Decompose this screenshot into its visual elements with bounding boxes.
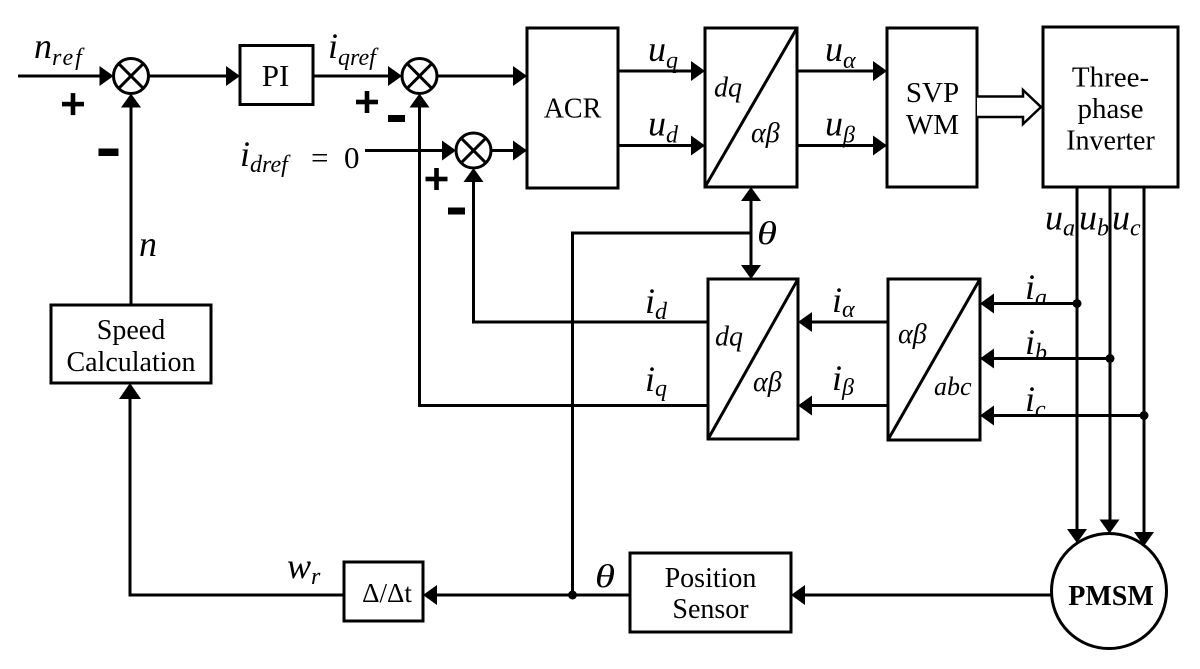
wire i_b to abc block [980, 349, 1110, 369]
wire i_c to abc block [980, 406, 1144, 426]
label minus S3 [448, 208, 465, 215]
wire n speed calculation to S1 [121, 94, 141, 306]
svg-text:αβ: αβ [753, 367, 782, 398]
label u_c [1112, 198, 1141, 242]
block dq/alphabeta transform lower [708, 279, 798, 439]
wire i_alpha abc to dq2 [798, 312, 888, 332]
wire PI to S2 [313, 66, 402, 86]
wire PMSM to position sensor [791, 585, 1052, 605]
wire phase a inverter to PMSM [1067, 187, 1087, 543]
svg-text:WM: WM [906, 109, 959, 141]
label u_b [1079, 198, 1109, 242]
block delta/delta-t [344, 562, 423, 621]
label u_a [1045, 198, 1075, 242]
svg-text:θ: θ [595, 559, 615, 595]
svg-text:dq: dq [714, 73, 742, 104]
label i_qref [328, 26, 379, 71]
label plus S1 [62, 93, 84, 115]
node tap i_c [1140, 411, 1149, 420]
label u_q [648, 29, 678, 74]
svg-text:Three-: Three- [1072, 62, 1149, 94]
svg-text:dq: dq [715, 322, 743, 353]
label theta lower [595, 559, 615, 595]
label minus S1 [99, 149, 119, 157]
label i_q [645, 359, 667, 402]
svg-text:αβ: αβ [898, 319, 927, 350]
svg-text:abc: abc [934, 372, 972, 401]
label i_dref = 0 [240, 134, 360, 178]
wire S3 to ACR [491, 141, 527, 161]
wire S2 to ACR [437, 66, 527, 86]
node tap i_a [1073, 299, 1082, 308]
label theta upper [757, 216, 777, 252]
svg-text:Sensor: Sensor [672, 594, 749, 625]
svg-text:Calculation: Calculation [66, 347, 195, 378]
label i_alpha [832, 280, 855, 323]
svg-text:PMSM: PMSM [1068, 581, 1154, 612]
summing junction S1 [114, 59, 149, 94]
label i_c [1025, 379, 1046, 423]
wire i_a to abc block [980, 294, 1077, 314]
label i_a [1025, 267, 1047, 311]
svg-text:Speed: Speed [97, 315, 165, 346]
block three-phase inverter [1043, 27, 1178, 187]
svg-text:Inverter: Inverter [1066, 126, 1155, 157]
wire S1 to PI [149, 66, 241, 86]
block dq/alphabeta transform upper [705, 28, 797, 187]
block ACR [527, 28, 618, 188]
label i_beta [832, 358, 854, 401]
svg-text:PI: PI [262, 58, 290, 93]
wire u_q ACR to dq1 [618, 61, 705, 81]
label u_beta [825, 104, 855, 149]
label n_ref [34, 26, 85, 71]
svg-text:ACR: ACR [544, 94, 602, 125]
wire theta branch to position sensor line [573, 233, 752, 595]
wire i_dref to S3 [365, 141, 456, 161]
svg-text:Position: Position [665, 563, 757, 594]
label w_r [287, 546, 321, 590]
svg-text:phase: phase [1077, 93, 1143, 125]
label i_b [1025, 322, 1047, 366]
svg-text:n: n [139, 224, 157, 264]
summing junction S3 [456, 133, 491, 168]
node tap i_b [1106, 354, 1115, 363]
block position sensor [630, 553, 791, 632]
block SVPWM [887, 28, 977, 187]
label plus S2 [356, 91, 378, 113]
wire u_d ACR to dq1 [618, 136, 705, 156]
node theta junction [568, 591, 577, 600]
block alphabeta/abc transform [888, 279, 980, 440]
label minus S2 [388, 115, 405, 122]
summing junction S2 [402, 59, 437, 94]
wire i_d dq2 to S3 [464, 168, 709, 322]
wire i_beta abc to dq2 [798, 396, 888, 416]
label n [139, 224, 157, 264]
label u_alpha [825, 29, 856, 74]
svg-text:θ: θ [757, 216, 777, 252]
label u_d [648, 104, 679, 149]
wire delta block to speed calculation [119, 383, 344, 595]
circle PMSM motor [1052, 534, 1167, 649]
block arrow SVPWM to inverter [977, 90, 1041, 124]
label i_d [645, 281, 668, 325]
svg-text:SVP: SVP [906, 77, 959, 109]
block speed calculation [51, 305, 211, 383]
wire theta link between transforms [741, 187, 761, 279]
svg-text:Δ/Δt: Δ/Δt [362, 578, 412, 608]
svg-text:αβ: αβ [751, 118, 780, 149]
wire phase b inverter to PMSM [1100, 187, 1120, 534]
wire u_alpha dq1 to SVPWM [797, 61, 887, 81]
wire n_ref input [18, 66, 114, 86]
wire u_beta dq1 to SVPWM [797, 136, 887, 156]
wire i_q dq2 to S2 [410, 94, 709, 406]
block PI [240, 46, 313, 105]
label plus S3 [426, 168, 448, 190]
wire position sensor to delta block [423, 585, 630, 605]
wire phase c inverter to PMSM [1134, 187, 1154, 546]
